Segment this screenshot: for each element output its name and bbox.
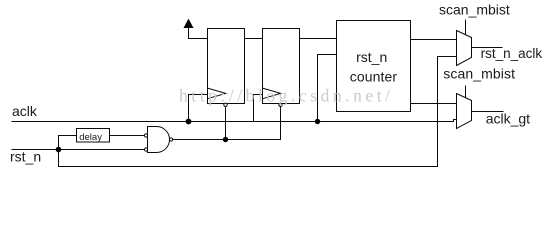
svg-text:rst_n: rst_n [10,148,41,164]
svg-text:aclk: aclk [12,103,38,119]
svg-text:aclk_gt: aclk_gt [486,111,530,127]
svg-text:scan_mbist: scan_mbist [443,66,515,82]
svg-text:rst_n_aclk: rst_n_aclk [481,46,543,61]
svg-text:scan_mbist: scan_mbist [439,2,510,18]
svg-text:http://blog.csdn.net/: http://blog.csdn.net/ [179,86,394,106]
svg-text:rst_n: rst_n [356,49,387,65]
svg-text:delay: delay [79,132,102,143]
svg-text:counter: counter [350,68,398,84]
